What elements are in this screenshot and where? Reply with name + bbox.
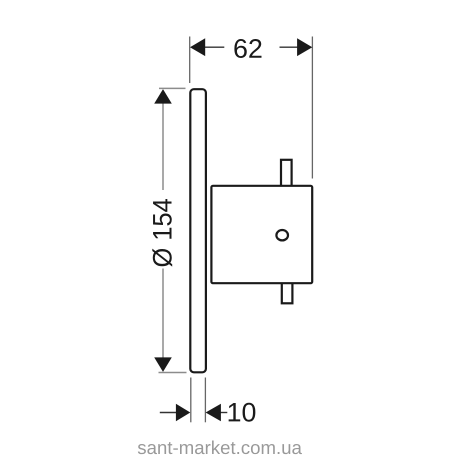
10 dim leader right	[221, 412, 228, 414]
62 dim text	[234, 39, 261, 58]
dia154 dim text	[152, 199, 172, 267]
extension line right of 62 dim	[311, 37, 313, 179]
bottom connection stub	[282, 280, 293, 303]
10 dim text	[229, 403, 256, 422]
screw hole on valve body	[276, 230, 288, 240]
62 dim arrow right	[297, 38, 312, 56]
10 dim leader left	[160, 412, 177, 414]
dia154 dim line lower segment	[162, 269, 164, 359]
extension line right of 10 dim	[204, 378, 206, 423]
62 dim leader right	[280, 46, 298, 48]
dia154 arrow down	[154, 357, 172, 372]
dia154 arrow up	[154, 89, 172, 104]
wall plate (side view, Ø154 escutcheon)	[190, 89, 206, 372]
dia154 tick top	[159, 87, 186, 89]
dia154 tick bottom	[159, 372, 187, 374]
10 dim arrow left	[176, 404, 190, 421]
62 dim leader left	[205, 46, 225, 48]
valve body (basic set box)	[211, 186, 312, 283]
10 dim arrow right	[206, 404, 221, 421]
62 dim arrow left	[190, 38, 205, 56]
dia154 dim line upper segment	[162, 103, 164, 190]
extension line left of 62 dim	[189, 37, 191, 84]
top connection stub	[281, 160, 292, 187]
extension line left of 10 dim	[190, 378, 192, 423]
watermark sant-market.com.ua	[138, 441, 302, 455]
